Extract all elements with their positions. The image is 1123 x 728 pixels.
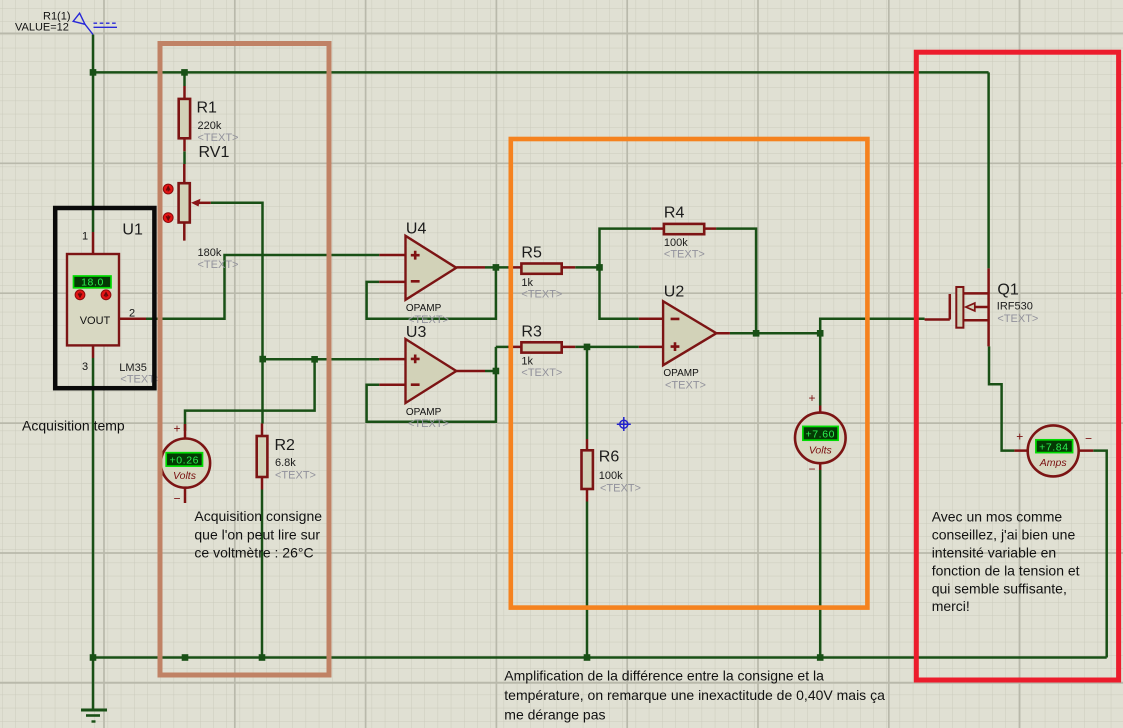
potentiometer RV1 up button (163, 184, 173, 194)
svg-text:Avec un mos comme: Avec un mos comme (932, 509, 1063, 525)
ground (81, 710, 107, 722)
svg-text:<TEXT>: <TEXT> (997, 313, 1038, 325)
svg-text:intensité variable en: intensité variable en (932, 544, 1057, 560)
resistor R1 pins (183, 86, 186, 151)
svg-text:OPAMP: OPAMP (663, 368, 699, 379)
svg-text:U2: U2 (664, 284, 685, 301)
wire U4 output to R5 (485, 266, 508, 269)
resistor R3 pins (508, 346, 575, 349)
svg-text:merci!: merci! (932, 598, 970, 614)
annotation box black around U1 (55, 208, 154, 388)
svg-text:220k: 220k (198, 120, 222, 132)
wire R6 to R3 node and ground rail (586, 347, 589, 658)
op-amp U3 pins (379, 359, 485, 385)
annotation box red around output section (916, 52, 1118, 680)
svg-text:que l'on peut lire sur: que l'on peut lire sur (194, 527, 320, 543)
svg-text:+7.84: +7.84 (1039, 441, 1069, 453)
svg-text:+: + (1016, 430, 1023, 444)
svg-text:<TEXT>: <TEXT> (664, 249, 705, 261)
svg-text:6.8k: 6.8k (275, 457, 296, 469)
svg-text:Volts: Volts (173, 470, 197, 482)
svg-text:100k: 100k (599, 470, 623, 482)
op-amp U2 pins (639, 319, 730, 347)
svg-text:+0.26: +0.26 (170, 454, 200, 466)
svg-text:<TEXT>: <TEXT> (600, 483, 641, 495)
junction ground rail at voltmeter 2 (817, 654, 824, 661)
wire U1 pin 2 to U4 non-inverting input (146, 255, 379, 319)
sensor U1 down button (75, 290, 85, 300)
svg-text:Q1: Q1 (997, 282, 1018, 299)
svg-text:18.0: 18.0 (81, 276, 104, 288)
annotation box orange around amplifier section (511, 139, 868, 608)
junction wiper node to voltmeter 1 (311, 356, 318, 363)
svg-text:fonction de la tension et: fonction de la tension et (932, 562, 1080, 578)
wire U3 feedback to inverting input (367, 347, 496, 422)
wire node up to R4 left (600, 229, 652, 268)
wire node to U2 inverting input (600, 267, 639, 318)
wire Q1 source to ammeter plus (989, 346, 1014, 450)
svg-text:me dérange pas: me dérange pas (504, 707, 605, 723)
op-amp U4 (406, 236, 457, 300)
svg-text:VOUT: VOUT (80, 315, 111, 327)
svg-text:Acquisition consigne: Acquisition consigne (194, 508, 322, 524)
wire RV1 wiper to R2 top (211, 203, 263, 424)
svg-text:1k: 1k (521, 356, 533, 368)
junction ground rail at voltmeter 1 (182, 654, 189, 661)
junction U3 output (493, 368, 500, 375)
svg-text:<TEXT>: <TEXT> (521, 367, 562, 379)
svg-text:VALUE=12: VALUE=12 (15, 22, 69, 34)
svg-text:180k: 180k (198, 247, 222, 259)
svg-text:Acquisition temp: Acquisition temp (22, 417, 125, 433)
junction wiper node to R2 (259, 356, 266, 363)
svg-text:R6: R6 (599, 449, 620, 466)
transistor Q1 stubs (963, 293, 989, 320)
resistor R5 pins (508, 266, 575, 269)
svg-text:U3: U3 (406, 324, 427, 341)
transistor Q1 gate lead (925, 294, 950, 320)
svg-text:U1: U1 (122, 221, 143, 238)
svg-text:+: + (808, 391, 815, 405)
svg-text:OPAMP: OPAMP (406, 303, 442, 314)
svg-text:<TEXT>: <TEXT> (198, 132, 239, 144)
svg-text:qui semble suffisante,: qui semble suffisante, (932, 580, 1067, 596)
svg-text:R3: R3 (521, 324, 542, 341)
wire U3 output node to R3 left (496, 346, 508, 349)
svg-text:<TEXT>: <TEXT> (408, 418, 449, 430)
transistor Q1 body diode arrow (966, 303, 975, 311)
svg-text:−: − (808, 462, 815, 476)
junction ground rail at R6 (584, 654, 591, 661)
svg-text:R4: R4 (664, 205, 685, 222)
svg-text:3: 3 (82, 361, 88, 373)
junction R5 right node (596, 264, 603, 271)
svg-text:−: − (173, 492, 180, 506)
op-amp U4 pins (379, 255, 485, 282)
resistor R4 (664, 224, 704, 234)
potentiometer RV1 body (179, 183, 190, 222)
junction ground rail at R2 (259, 654, 266, 661)
transistor Q1 gate plate (956, 287, 963, 328)
wire top +12V rail (93, 71, 989, 74)
resistor R2 pins (261, 424, 264, 490)
svg-text:1k: 1k (521, 277, 533, 289)
voltmeter 1 pins (184, 424, 187, 503)
svg-text:R5: R5 (521, 244, 542, 261)
svg-text:−: − (1085, 432, 1092, 446)
node marker crosshair (617, 417, 631, 431)
resistor R3 (521, 342, 561, 352)
svg-text:+: + (173, 422, 180, 436)
svg-text:conseillez, j'ai bien une: conseillez, j'ai bien une (932, 526, 1076, 542)
svg-text:LM35: LM35 (119, 362, 147, 374)
potentiometer RV1 down button (163, 213, 173, 223)
svg-text:1: 1 (82, 230, 88, 242)
junction at rail and R1 (181, 69, 188, 76)
junction output node to voltmeter 2 (817, 330, 824, 337)
wire node down to voltmeter plus (185, 359, 315, 431)
potentiometer RV1 pins (183, 164, 186, 241)
svg-text:Amplification de la différence: Amplification de la différence entre la … (504, 668, 824, 684)
svg-text:IRF530: IRF530 (997, 301, 1033, 313)
svg-text:<TEXT>: <TEXT> (521, 288, 562, 300)
wire R1 bottom to RV1 top (183, 151, 186, 164)
resistor R2 (257, 436, 268, 477)
wire output node to voltmeter 2 and ground rail (819, 333, 822, 657)
resistor R6 pins (586, 439, 589, 502)
svg-text:100k: 100k (664, 237, 688, 249)
junction R3 and R6 node (584, 344, 591, 351)
wire U1 pin 3 down to ground symbol (92, 358, 95, 710)
svg-text:R2: R2 (275, 437, 296, 454)
potentiometer RV1 wiper (197, 202, 211, 205)
svg-text:Amps: Amps (1039, 457, 1068, 469)
transistor Q1 drain-source bar (987, 268, 990, 346)
junction ground rail at U1 (90, 654, 97, 661)
voltmeter 2 (795, 413, 846, 464)
sensor U1 display 18.0 (74, 276, 112, 288)
op-amp U3 (406, 339, 457, 403)
wire R3 right to U2 non-inverting input (575, 346, 639, 349)
annotation box brown around consigne section (160, 44, 329, 676)
junction U4 output (493, 264, 500, 271)
sensor U1 up button (101, 290, 111, 300)
svg-text:+7.60: +7.60 (806, 428, 836, 440)
svg-text:RV1: RV1 (199, 144, 230, 161)
svg-text:U4: U4 (406, 221, 427, 238)
power terminal R1(1) +12V (73, 13, 117, 34)
wire ammeter minus to ground rail (1093, 451, 1107, 658)
sensor U1 LM35 body (67, 254, 119, 345)
ammeter pins (1014, 449, 1093, 452)
resistor R6 (582, 450, 593, 489)
svg-text:température, on remarque une i: température, on remarque une inexactitud… (504, 687, 885, 703)
junction at rail and power terminal (90, 69, 97, 76)
svg-text:<TEXT>: <TEXT> (275, 470, 316, 482)
wire R2 bottom to ground rail (261, 490, 264, 658)
svg-text:<TEXT>: <TEXT> (198, 259, 239, 271)
wire R1 top to rail (183, 72, 186, 86)
wire R5 right to node (575, 266, 599, 269)
svg-text:R1: R1 (197, 99, 218, 116)
junction U2 output and R4 (753, 330, 760, 337)
voltmeter 2 pins (819, 406, 822, 471)
sensor U1 LM35 pins (93, 232, 146, 358)
wire wiper node to U3 non-inverting input (263, 358, 380, 361)
svg-text:Volts: Volts (809, 444, 833, 456)
svg-text:ce voltmètre : 26°C: ce voltmètre : 26°C (194, 545, 313, 561)
wire power terminal to top rail and U1 pin 1 (92, 35, 95, 233)
wire U4 feedback to inverting input (367, 267, 496, 318)
resistor R1 (179, 99, 190, 138)
svg-text:2: 2 (129, 308, 135, 320)
op-amp U2 (663, 301, 716, 365)
svg-text:<TEXT>: <TEXT> (665, 380, 706, 392)
svg-text:OPAMP: OPAMP (406, 407, 442, 418)
wire U2 output to Q1 gate (730, 319, 925, 334)
resistor R4 pins (651, 227, 716, 230)
ammeter (1028, 425, 1079, 476)
voltmeter 1 (161, 439, 210, 488)
wire bottom ground rail (93, 656, 1107, 659)
wire top rail down to Q1 drain (987, 72, 990, 268)
wire R4 right down to U2 output node (716, 229, 756, 334)
resistor R5 (521, 264, 561, 274)
